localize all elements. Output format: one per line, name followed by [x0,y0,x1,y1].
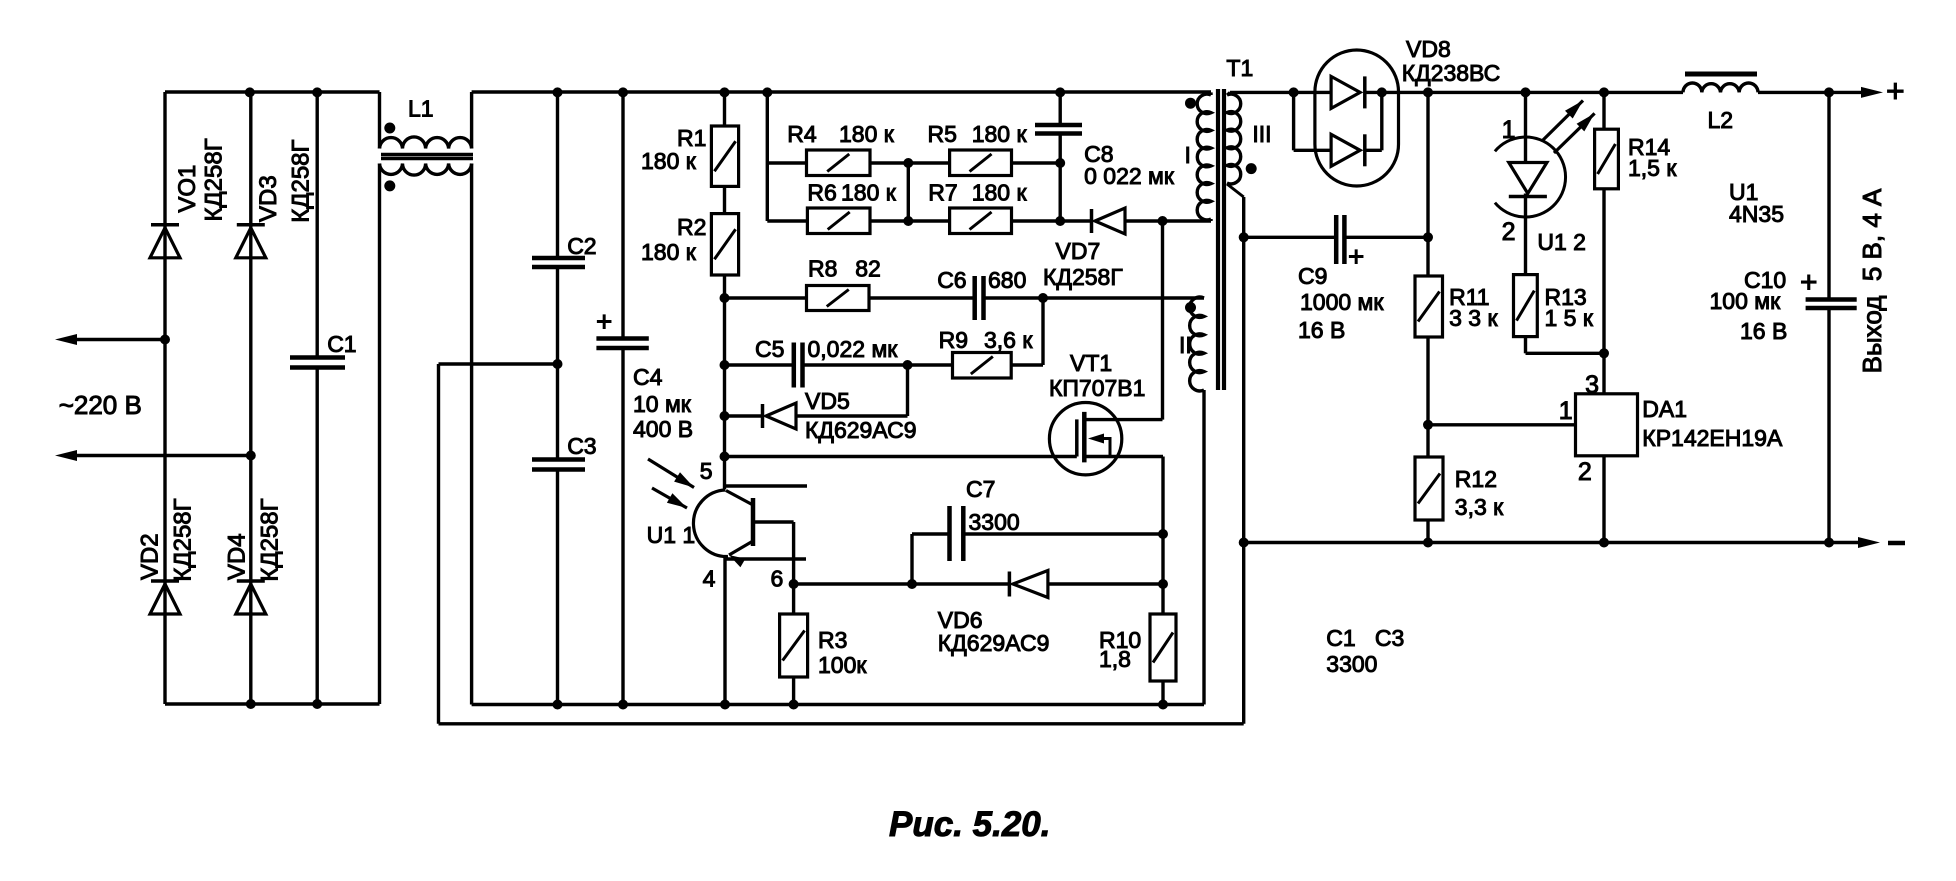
svg-text:680: 680 [988,267,1026,293]
svg-text:II: II [1179,332,1192,358]
svg-text:VD7: VD7 [1056,238,1101,264]
svg-text:C7: C7 [966,476,995,502]
svg-text:VD5: VD5 [805,388,850,414]
svg-text:+: + [596,306,612,337]
svg-text:R7: R7 [928,179,957,205]
svg-text:КР142ЕН19А: КР142ЕН19А [1642,425,1783,451]
svg-text:Рис. 5.20.: Рис. 5.20. [889,805,1050,844]
svg-text:T1: T1 [1226,55,1253,81]
svg-text:R3: R3 [818,627,847,653]
svg-text:VD8: VD8 [1406,36,1451,62]
svg-text:3,3 к: 3,3 к [1455,494,1504,520]
svg-text:+: + [1886,73,1905,109]
svg-text:III: III [1252,121,1271,147]
svg-text:L1: L1 [408,96,434,122]
svg-text:C6: C6 [937,267,966,293]
svg-text:L2: L2 [1708,107,1734,133]
svg-text:C5: C5 [755,336,784,362]
svg-text:0,022 мк: 0,022 мк [808,336,899,362]
svg-text:4N35: 4N35 [1729,201,1784,227]
svg-text:3,6 к: 3,6 к [984,327,1033,353]
svg-text:КД629АС9: КД629АС9 [805,417,917,443]
svg-text:R2: R2 [677,214,706,240]
svg-text:3300: 3300 [969,509,1020,535]
svg-text:3 3 к: 3 3 к [1449,305,1498,331]
svg-text:R5: R5 [928,121,957,147]
svg-text:100 мк: 100 мк [1710,288,1782,314]
svg-text:100к: 100к [818,652,867,678]
svg-text:2: 2 [1578,458,1592,486]
svg-text:I: I [1185,142,1191,168]
svg-text:16 В: 16 В [1740,318,1787,344]
svg-text:1,5 к: 1,5 к [1628,155,1677,181]
svg-text:R9: R9 [939,327,968,353]
svg-text:VD2: VD2 [136,533,163,580]
svg-text:6: 6 [771,566,784,592]
svg-text:180 к: 180 к [641,239,697,265]
svg-text:10 мк: 10 мк [633,391,692,417]
svg-text:R6: R6 [807,179,836,205]
svg-text:16 В: 16 В [1298,317,1345,343]
svg-text:180 к: 180 к [839,121,895,147]
svg-text:КД258Г: КД258Г [170,498,197,581]
svg-text:180 к: 180 к [641,148,697,174]
svg-text:3: 3 [1585,371,1599,399]
svg-text:C9: C9 [1298,263,1327,289]
svg-text:КД258Г: КД258Г [257,498,284,581]
svg-text:0 022 мк: 0 022 мк [1084,163,1175,189]
svg-text:180 к: 180 к [972,121,1028,147]
svg-text:R8: R8 [808,256,837,282]
svg-text:C3: C3 [567,433,596,459]
svg-text:4: 4 [703,566,716,592]
svg-text:VT1: VT1 [1070,350,1112,376]
svg-text:VD3: VD3 [255,175,282,222]
svg-text:КП707В1: КП707В1 [1049,375,1145,401]
svg-text:1: 1 [1502,116,1516,144]
svg-text:C4: C4 [633,364,663,390]
svg-text:КД238ВС: КД238ВС [1402,60,1501,86]
svg-text:R12: R12 [1455,466,1497,492]
svg-text:3300: 3300 [1326,651,1377,677]
svg-text:VD4: VD4 [223,533,250,580]
svg-text:1: 1 [1559,397,1573,425]
svg-text:180 к: 180 к [841,179,897,205]
svg-text:R4: R4 [787,121,817,147]
svg-text:КД258Г: КД258Г [1043,264,1123,290]
svg-text:400 В: 400 В [633,416,693,442]
svg-text:1000 мк: 1000 мк [1300,289,1384,315]
svg-text:C1: C1 [327,331,356,357]
svg-text:1,8: 1,8 [1099,646,1131,672]
svg-text:5: 5 [700,458,713,484]
svg-text:C2: C2 [567,233,596,259]
svg-text:82: 82 [855,256,881,282]
svg-text:Выход 5 В, 4 А: Выход 5 В, 4 А [1857,188,1887,373]
svg-text:+: + [1800,266,1818,299]
svg-text:DA1: DA1 [1642,396,1687,422]
svg-text:180 к: 180 к [972,179,1028,205]
svg-text:КД258Г: КД258Г [201,138,228,221]
svg-text:+: + [1348,241,1364,272]
svg-text:~220 В: ~220 В [59,390,142,420]
svg-text:2: 2 [1502,218,1516,246]
svg-text:U1 2: U1 2 [1537,229,1586,255]
svg-text:C1 C3: C1 C3 [1326,625,1404,651]
svg-text:1 5 к: 1 5 к [1545,305,1594,331]
svg-text:КД629АС9: КД629АС9 [938,630,1050,656]
svg-text:U1 1: U1 1 [647,522,696,548]
svg-text:КД258Г: КД258Г [288,139,315,222]
svg-text:VO1: VO1 [174,165,201,213]
